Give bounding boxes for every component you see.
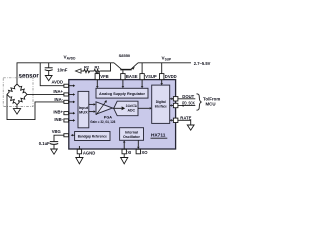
pin XI xyxy=(122,149,126,154)
wire BASE into regulator xyxy=(122,80,124,87)
resistor chain arrow to AGND xyxy=(76,69,82,73)
wire V_AVDD top rail xyxy=(17,63,114,84)
svg-text:sensor: sensor xyxy=(19,73,40,80)
svg-text:INA+: INA+ xyxy=(53,89,63,94)
svg-text:Input: Input xyxy=(79,106,89,110)
svg-text:PD_SCK: PD_SCK xyxy=(182,101,195,106)
pin INA+ xyxy=(64,93,69,96)
wire RATE inside xyxy=(172,119,174,121)
wire to rail riser xyxy=(101,63,111,71)
pin DOUT xyxy=(173,97,178,101)
svg-text:R2: R2 xyxy=(84,64,90,69)
svg-text:Oscillator: Oscillator xyxy=(123,135,141,139)
wire DOUT inside xyxy=(170,98,172,100)
wire DVDD drop xyxy=(161,63,163,74)
pin PD_SCK xyxy=(173,103,178,107)
svg-text:DOUT: DOUT xyxy=(182,94,194,99)
pin BASE xyxy=(121,74,125,80)
svg-text:HX711: HX711 xyxy=(151,133,166,139)
svg-text:RATE: RATE xyxy=(180,116,191,121)
svg-text:INB+: INB+ xyxy=(53,110,63,115)
svg-text:Bandgap Reference: Bandgap Reference xyxy=(78,134,107,138)
pin AVDD xyxy=(64,84,69,87)
svg-text:XO: XO xyxy=(142,150,149,155)
bridge resistor arm bottom-right xyxy=(16,93,29,106)
pin VSUP xyxy=(140,74,144,80)
svg-text:R1: R1 xyxy=(95,64,101,69)
wire VSUP drop xyxy=(141,63,143,74)
pin INB+ xyxy=(64,112,69,115)
IC body HX711 xyxy=(69,80,176,149)
svg-text:10nF: 10nF xyxy=(57,67,67,72)
wire DOUT xyxy=(178,98,195,100)
bridge resistor arm top-right xyxy=(16,83,29,96)
ground AGND xyxy=(78,154,80,158)
digital interface block xyxy=(152,85,170,123)
wire AVDD stub inside chip xyxy=(69,85,74,87)
wire AVDD branch xyxy=(40,63,64,86)
pin RATE xyxy=(173,118,178,122)
input mux block xyxy=(78,91,89,127)
wire XI to oscillator xyxy=(123,142,125,149)
wire RATE to ground xyxy=(178,120,191,125)
bandgap reference block xyxy=(75,132,110,141)
wire V_SUP top rail xyxy=(138,62,191,64)
svg-text:INB-: INB- xyxy=(54,117,63,122)
wire PD_SCK inside xyxy=(172,105,174,107)
svg-text:VSUP: VSUP xyxy=(162,56,173,62)
brace to MCU xyxy=(197,94,202,110)
svg-text:Interface: Interface xyxy=(155,105,167,109)
wire DVDD into block xyxy=(161,80,163,84)
pin AGND xyxy=(77,149,81,154)
wire adc to digital interface xyxy=(138,107,150,109)
op-amp PGA xyxy=(96,102,113,114)
resistor R2 xyxy=(83,69,91,72)
bridge resistor arm bottom-left xyxy=(6,93,19,106)
wire XO from oscillator xyxy=(137,140,139,147)
wire VFB tap xyxy=(96,71,98,74)
svg-text:Digital: Digital xyxy=(156,100,166,104)
svg-text:Gain = 32, 64, 128: Gain = 32, 64, 128 xyxy=(90,120,115,124)
internal oscillator block xyxy=(120,128,144,141)
sensor dashed box xyxy=(3,78,33,107)
wire xyxy=(81,70,83,72)
resistor R1 xyxy=(93,69,101,72)
svg-text:VAVDD: VAVDD xyxy=(64,55,77,61)
svg-text:XI: XI xyxy=(127,150,131,155)
svg-text:VBG: VBG xyxy=(52,129,61,134)
ground below bridge xyxy=(16,105,18,109)
svg-text:AVDD: AVDD xyxy=(51,79,63,84)
wire INA- routed under sensor xyxy=(7,94,64,119)
wires pins to input mux with arrows xyxy=(69,95,74,121)
ground RATE xyxy=(187,125,194,130)
svg-text:BASE: BASE xyxy=(126,74,138,79)
svg-text:VFB: VFB xyxy=(100,74,108,79)
svg-text:AGND: AGND xyxy=(83,151,95,156)
bridge resistor arm top-left xyxy=(6,83,19,96)
wire xyxy=(91,70,94,72)
wire VFB into regulator xyxy=(96,80,98,87)
wire pga to adc xyxy=(113,107,122,109)
pin INB- xyxy=(64,119,69,122)
transistor Q1 S8550 xyxy=(114,63,138,74)
capacitor 0.1uF on VBG xyxy=(54,135,64,141)
wire AGND stub xyxy=(78,146,80,149)
pin VFB xyxy=(95,74,99,80)
wire bandgap to VBG xyxy=(73,134,75,136)
svg-text:MCU: MCU xyxy=(206,102,216,107)
svg-text:INA-: INA- xyxy=(54,97,63,102)
svg-text:2.7~5.5V: 2.7~5.5V xyxy=(194,61,211,66)
pin VBG xyxy=(64,134,69,137)
wire PD_SCK xyxy=(178,105,195,107)
wire INA+ xyxy=(27,93,64,95)
wire VSUP into regulator xyxy=(141,80,143,87)
ground XI xyxy=(123,154,125,158)
svg-text:S8550: S8550 xyxy=(119,53,131,58)
wires mux to pga xyxy=(89,103,94,105)
svg-text:0.1uF: 0.1uF xyxy=(39,141,50,146)
analog supply regulator block xyxy=(96,88,148,98)
svg-text:Internal: Internal xyxy=(125,130,138,134)
capacitor 10nF xyxy=(48,63,50,68)
svg-text:MUX: MUX xyxy=(79,110,88,114)
svg-text:ADC: ADC xyxy=(128,108,136,112)
ADC banner 24-bit sigma-delta xyxy=(114,101,138,116)
pin DVDD xyxy=(160,74,164,80)
svg-text:VSUP: VSUP xyxy=(145,74,157,79)
pin INA- xyxy=(64,100,69,103)
pin XO xyxy=(136,149,140,154)
svg-text:Analog Supply Regulator: Analog Supply Regulator xyxy=(99,92,146,96)
svg-text:DVDD: DVDD xyxy=(165,74,177,79)
svg-text:PGA: PGA xyxy=(104,116,112,120)
